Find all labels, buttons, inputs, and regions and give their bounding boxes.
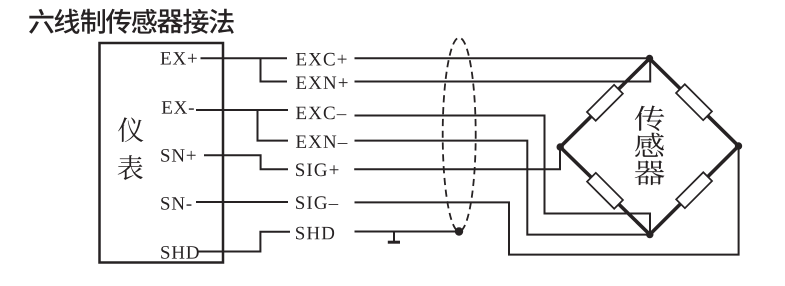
bridge edge top-left — [560, 59, 649, 148]
title char 制 — [81, 9, 105, 34]
node: bridge right vertex dot — [735, 142, 742, 149]
bridge edge bottom-right — [650, 146, 739, 235]
wire label EXN- — [296, 136, 348, 148]
node: bridge bottom vertex dot — [646, 231, 653, 238]
ground stem — [393, 232, 395, 242]
title char 线 — [55, 9, 80, 34]
wire label SIG- — [296, 196, 338, 209]
terminal label SHD (instrument) — [161, 246, 199, 259]
wire branch EX- down to EXN- label — [258, 110, 289, 141]
node: shield junction dot — [455, 227, 463, 235]
node: bridge top vertex dot — [646, 55, 653, 62]
terminal label EX- (instrument) — [162, 101, 194, 113]
wire EX+ to EXC+ label — [201, 57, 288, 59]
box label char 表 — [118, 155, 143, 180]
wire EXN+ to bridge top vertex — [355, 59, 651, 82]
wire EXC+ to bridge top vertex — [355, 57, 650, 59]
bridge edge bottom-left — [560, 147, 650, 235]
wire SIG+ to bridge left vertex — [354, 147, 560, 169]
title char 六 — [29, 9, 54, 34]
box label char 仪 — [118, 117, 143, 142]
wire label SIG+ — [296, 163, 338, 176]
title char 感 — [132, 9, 157, 34]
wire label EXC+ — [296, 53, 347, 66]
cable shield ellipse — [443, 38, 476, 232]
wire SIG- to bridge right vertex — [355, 146, 739, 255]
resistor R2 (top-right arm) — [676, 84, 712, 120]
bridge edge top-right — [650, 59, 739, 147]
wire EX- to EXC- label — [196, 109, 288, 111]
wire SHD to cable shield junction — [355, 231, 460, 233]
terminal label SN+ (instrument) — [161, 149, 195, 162]
resistor R3 (bottom-left arm) — [587, 173, 623, 209]
title char 传 — [106, 9, 131, 34]
wire SHD up to SHD label — [198, 232, 291, 252]
wire branch EX+ down to EXN+ label — [261, 58, 288, 81]
wire EXC- to bridge bottom vertex — [355, 116, 651, 235]
wire SN- to SIG- label — [196, 201, 288, 203]
terminal label EX+ (instrument) — [161, 52, 197, 64]
bridge label char 器 — [635, 160, 665, 185]
wire label EXC- — [296, 107, 346, 120]
bridge label char 传 — [635, 105, 665, 130]
title char 法 — [209, 9, 234, 34]
wire EXN- to bridge bottom vertex — [355, 141, 650, 235]
title char 器 — [157, 9, 183, 33]
wire label EXN+ — [296, 77, 348, 89]
ground bar — [388, 241, 400, 244]
bridge label char 感 — [635, 133, 664, 157]
resistor R4 (bottom-right arm) — [676, 172, 712, 208]
resistor R1 (top-left arm) — [587, 85, 623, 121]
node: bridge left vertex dot — [557, 143, 564, 150]
title char 接 — [183, 9, 208, 34]
wire SN+ down to SIG+ label — [204, 155, 288, 169]
wire label SHD — [296, 227, 334, 240]
instrument box U1 (仪表) — [100, 43, 224, 263]
terminal label SN- (instrument) — [161, 197, 191, 210]
